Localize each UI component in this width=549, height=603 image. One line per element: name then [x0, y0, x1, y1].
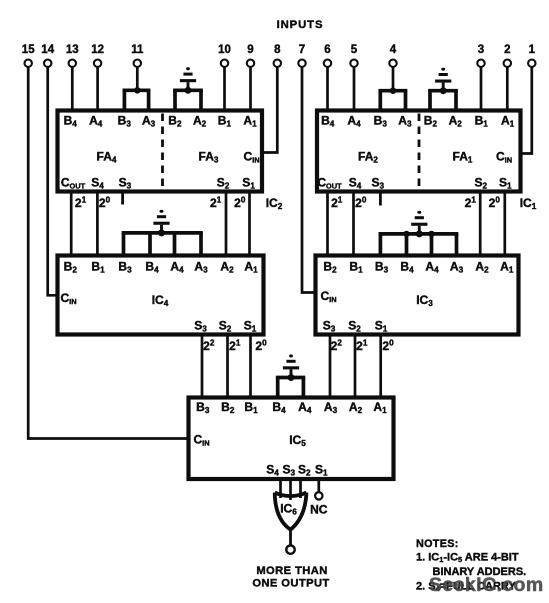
- svg-text:NC: NC: [310, 503, 328, 517]
- wire input 6 to IC1 B4: [326, 67, 329, 110]
- input terminal 14: [41, 44, 54, 67]
- svg-text:14: 14: [41, 44, 54, 56]
- svg-text:NOTES:: NOTES:: [416, 538, 459, 550]
- svg-text:SeekIC.com: SeekIC.com: [429, 574, 544, 596]
- bracket IC4 B3 B4 A4 A3 to supply: [122, 233, 203, 256]
- output terminal circle: [286, 545, 294, 553]
- svg-text:6: 6: [324, 44, 330, 56]
- input terminal 4: [389, 44, 396, 67]
- adder IC2 (FA4 FA3) box: [58, 111, 263, 192]
- wire IC2 S4 to IC4 B1: [96, 193, 99, 256]
- svg-text:4: 4: [390, 44, 397, 56]
- or-gate IC6: [275, 493, 307, 530]
- bracket IC1 B2 A2 to supply: [428, 91, 458, 111]
- stub IC1 S3: [379, 193, 382, 206]
- wire input 14 to IC4 CIN: [48, 67, 59, 295]
- svg-text:13: 13: [66, 44, 79, 56]
- logic-1 supply symbol over IC5: [283, 355, 299, 382]
- wire IC5 S2 to IC6: [299, 479, 302, 498]
- wire IC5 S4 to IC6: [279, 479, 282, 498]
- wire IC1 S4 to IC3 B1: [352, 193, 355, 256]
- input terminal 7: [298, 44, 305, 67]
- wire input 1 to IC1 CIN: [521, 67, 532, 153]
- bracket input 11 to IC2 B3 A3: [123, 90, 151, 110]
- svg-text:12: 12: [91, 44, 104, 56]
- svg-text:3: 3: [478, 44, 484, 56]
- svg-text:5: 5: [351, 44, 358, 56]
- junction node IC3 bracket A4: [428, 231, 434, 237]
- input terminal 11: [131, 44, 144, 67]
- wire IC1 S2 to IC3 A2: [479, 193, 482, 256]
- input terminal 6: [324, 44, 331, 67]
- wire IC5 S1 to NC: [317, 479, 320, 492]
- input terminal 9: [247, 44, 254, 67]
- wire IC3 S3 to IC5 A3: [329, 335, 332, 398]
- wire IC5 S3 to IC6: [289, 479, 292, 500]
- adder IC4 box: [58, 256, 264, 335]
- wire input 10 to IC2 B1: [223, 67, 226, 110]
- wire input 2 to IC1 A1: [506, 67, 509, 110]
- input terminal 12: [91, 44, 104, 67]
- wire IC4 S2 to IC5 B2: [226, 335, 229, 398]
- wire IC1 S1 to IC3 A1: [503, 193, 506, 256]
- input terminal 5: [350, 44, 357, 67]
- adder IC3 box: [316, 256, 519, 335]
- junction node IC3 bracket B4: [403, 231, 409, 237]
- bracket input 4 to IC1 B3 A3: [378, 91, 407, 111]
- wire IC1 COUT to IC3 B2: [326, 193, 329, 256]
- wire IC6 output: [289, 530, 292, 546]
- input terminal 2: [504, 44, 511, 67]
- svg-text:8: 8: [274, 44, 281, 56]
- IC2 dashed divider: [161, 114, 164, 190]
- svg-text:MORE THAN: MORE THAN: [256, 565, 327, 577]
- wire IC3 S2 to IC5 A2: [354, 335, 357, 398]
- bracket IC3 B3 B4 A4 A3 to supply: [379, 234, 459, 256]
- wire IC4 S1 to IC5 B1: [249, 335, 252, 398]
- svg-text:7: 7: [299, 44, 305, 56]
- svg-text:INPUTS: INPUTS: [277, 19, 324, 31]
- svg-text:1. IC1-IC5 ARE 4-BIT: 1. IC1-IC5 ARE 4-BIT: [416, 552, 519, 565]
- wire input 9 to IC2 A1: [249, 67, 252, 110]
- svg-text:15: 15: [22, 44, 35, 56]
- logic-1 supply symbol over IC1 B2 A2: [435, 68, 451, 95]
- svg-text:2: 2: [504, 44, 510, 56]
- adder IC5 box: [189, 398, 394, 480]
- wire input 3 to IC1 B1: [480, 67, 483, 110]
- wire input 15 to IC5 CIN: [28, 67, 190, 438]
- svg-text:10: 10: [218, 44, 231, 56]
- input terminal 10: [218, 44, 231, 67]
- junction node input 4 bracket: [390, 87, 397, 94]
- NC terminal circle: [315, 492, 322, 499]
- input terminal 13: [66, 44, 79, 67]
- wire input 8 to IC2 CIN: [262, 67, 277, 152]
- svg-text:11: 11: [131, 44, 144, 56]
- wire input 5 to IC1 A4: [353, 67, 356, 110]
- logic-1 supply symbol over IC2 B2 A2: [180, 67, 196, 94]
- svg-text:1: 1: [529, 44, 536, 56]
- svg-text:9: 9: [247, 44, 253, 56]
- wire input 11 down to bracket: [136, 67, 139, 91]
- wire input 7 to IC3 CIN: [302, 67, 316, 292]
- input terminal 15: [22, 44, 35, 67]
- bracket IC2 B2 A2 to supply: [173, 90, 203, 110]
- logic-1 supply symbol over IC4: [153, 210, 169, 237]
- wire IC2 S2 to IC4 A2: [225, 193, 228, 256]
- adder IC1 (FA2 FA1) box: [317, 111, 521, 192]
- wire input 13 to IC2 B4: [71, 67, 74, 110]
- svg-text:ONE OUTPUT: ONE OUTPUT: [252, 578, 329, 590]
- wire IC2 COUT to IC4 B2: [70, 193, 73, 256]
- input terminal 8: [274, 44, 281, 67]
- wire IC4 S3 to IC5 B3: [201, 335, 204, 398]
- wire input 12 to IC2 A4: [96, 67, 99, 110]
- wire input 4 down to bracket: [392, 67, 395, 92]
- wire IC3 S1 to IC5 A1: [379, 335, 382, 398]
- bracket IC5 B4 A4 to supply: [276, 378, 305, 398]
- junction node input 11 bracket: [134, 87, 141, 94]
- logic-1 supply symbol over IC3: [411, 211, 427, 238]
- IC1 dashed divider: [418, 114, 421, 190]
- wire IC2 S1 to IC4 A1: [248, 193, 251, 256]
- input terminal 1: [528, 44, 535, 67]
- stub IC2 S3: [121, 193, 124, 205]
- input terminal 3: [477, 44, 484, 67]
